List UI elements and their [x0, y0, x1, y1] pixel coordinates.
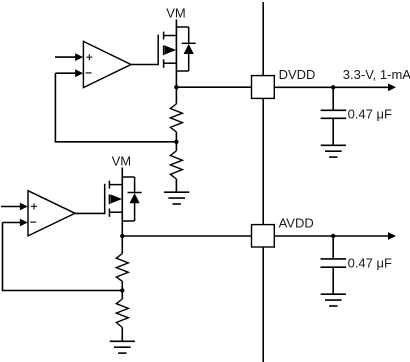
transistor M1 (pass FET)	[158, 32, 176, 68]
svg-text:0.47 μF: 0.47 μF	[348, 255, 392, 270]
wire: DVDD output with arrowhead	[274, 83, 396, 91]
transistor M2 (pass FET)	[105, 181, 123, 217]
wire: U1 inverting (-) input with arrowhead	[55, 69, 83, 77]
node: divider 1 midpoint	[174, 140, 178, 144]
node: C2 junction on AVDD rail	[331, 234, 335, 238]
resistor R2 (upper divider, bottom)	[170, 142, 182, 192]
resistor R1 (upper divider, top)	[170, 87, 182, 142]
wire: feedback from divider 2 midpoint to U2 inverting input	[3, 223, 123, 291]
resistor R3 (lower divider, top)	[116, 236, 128, 291]
op-amp U1	[83, 41, 131, 87]
wire: U1 non-inverting (+) input with arrowhead	[55, 53, 83, 61]
svg-text:DVDD: DVDD	[279, 67, 316, 82]
wire: U2 output to M2 gate	[75, 212, 105, 214]
node: M2 output junction	[120, 234, 124, 238]
wire: U1 output to M1 gate	[131, 64, 158, 66]
svg-text:3.3-V, 1-mA: 3.3-V, 1-mA	[343, 67, 410, 82]
pin DVDD (package pin square)	[252, 76, 275, 99]
capacitor C2	[321, 236, 347, 294]
ground (lower divider)	[110, 341, 135, 353]
svg-text:0.47 μF: 0.47 μF	[348, 106, 392, 121]
pin AVDD (package pin square)	[252, 225, 275, 247]
diode D1 (body diode of M1)	[176, 27, 195, 71]
wire: U2 non-inverting (+) input with arrowhead	[1, 203, 28, 211]
node: M1 output junction	[174, 85, 178, 89]
capacitor C1	[321, 87, 347, 145]
diode D2 (body diode of M2)	[122, 177, 141, 221]
wire: VM to M2 drain/source line down to node AVDD	[121, 168, 123, 237]
wire: node to DVDD pin square	[176, 86, 251, 88]
wire: VM power bus (vertical rail)	[262, 2, 264, 362]
wire: VM to M1 drain/source line down to node DVDD	[175, 20, 177, 88]
op-amp U2	[28, 191, 75, 236]
wire: U2 inverting (-) input with arrowhead	[3, 219, 28, 227]
svg-text:VM: VM	[166, 5, 186, 20]
node: C1 junction on DVDD rail	[331, 85, 335, 89]
svg-text:AVDD: AVDD	[279, 215, 314, 230]
wire: feedback from divider midpoint to U1 inverting input	[55, 73, 176, 142]
resistor R4 (lower divider, bottom)	[116, 291, 128, 342]
node: divider 2 midpoint	[120, 288, 124, 292]
svg-text:VM: VM	[112, 154, 132, 169]
ground (upper divider)	[164, 192, 189, 204]
ground (C1)	[321, 145, 346, 157]
wire: AVDD output with arrowhead	[274, 232, 396, 240]
wire: node to AVDD pin square	[122, 235, 251, 237]
ground (C2)	[321, 294, 346, 306]
